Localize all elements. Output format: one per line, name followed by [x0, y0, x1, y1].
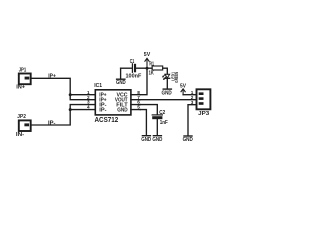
ground under IC1 pin 5 — [142, 135, 150, 137]
svg-text:GND: GND — [162, 90, 172, 96]
wire IN+ branch to IC1 pin 1 — [70, 94, 95, 96]
svg-text:IC1: IC1 — [94, 83, 102, 89]
svg-text:GND: GND — [116, 80, 126, 86]
ground under LED — [163, 88, 171, 90]
connector JP2 — [19, 120, 31, 131]
wire JP3 pin 3 down to ground — [188, 105, 197, 136]
pin numbers JP3 (1,2,3) — [191, 90, 194, 105]
svg-text:IP+: IP+ — [48, 74, 56, 80]
junction IN- — [69, 108, 72, 111]
wire FILT: IC1 pin 6 to C2 — [140, 105, 157, 115]
ground under C1 — [117, 78, 125, 80]
svg-text:GND: GND — [183, 137, 193, 143]
capacitor C2 — [152, 115, 162, 119]
wire 5V rail left segment to C1 — [121, 67, 132, 69]
wire VCC: IC1 pin 8 up to 5V rail — [140, 68, 147, 95]
svg-text:GND: GND — [141, 137, 151, 143]
wire R1 to LED — [163, 68, 168, 74]
svg-text:1nF: 1nF — [160, 120, 168, 126]
svg-text:IN+: IN+ — [16, 85, 25, 91]
supply 5V symbol (JP3) — [181, 89, 185, 95]
svg-text:R1: R1 — [149, 61, 154, 67]
wire VOUT: IC1 pin 7 to JP3 pin 2 — [140, 99, 196, 101]
ground under JP3 pin 3 — [184, 135, 192, 137]
wire LED cathode down to ground — [166, 78, 168, 88]
svg-text:IP-: IP- — [99, 108, 107, 114]
wire down from rail to ground (left of C1) — [120, 68, 122, 78]
wire IN- from JP2 to IC1 pin 3 — [31, 105, 96, 125]
svg-text:100nF: 100nF — [126, 73, 142, 79]
junction 5V rail — [146, 67, 149, 70]
pin numbers IC1 right (8,7,6,5) — [137, 90, 140, 110]
svg-text:GND: GND — [152, 137, 162, 143]
svg-text:IN-: IN- — [16, 132, 24, 138]
wire IN+ from JP1 to IC1 pin 2 — [31, 78, 96, 99]
junction IN+ — [69, 93, 72, 96]
ground under C2 — [153, 135, 161, 137]
wire 5V rail mid segment C1 to R1 — [136, 67, 152, 69]
svg-text:GREEN: GREEN — [174, 72, 179, 83]
resistor R1 — [152, 66, 163, 70]
pin names IC1 right (VCC VOUT FILT GND) — [115, 93, 128, 114]
svg-text:JP3: JP3 — [198, 111, 210, 117]
svg-text:C2: C2 — [159, 110, 165, 116]
svg-text:ACS712: ACS712 — [95, 117, 119, 124]
wire IN- branch to IC1 pin 4 — [70, 109, 95, 111]
svg-text:1K: 1K — [149, 70, 154, 76]
svg-text:JP2: JP2 — [17, 114, 26, 120]
IC1 right pin stubs 8-5 — [131, 95, 140, 110]
LED D1 — [162, 74, 170, 80]
svg-text:C1: C1 — [130, 59, 135, 65]
wire C2 down to ground — [156, 119, 158, 135]
svg-text:4: 4 — [87, 105, 90, 110]
svg-text:GND: GND — [117, 108, 128, 114]
wire GND: IC1 pin 5 down to ground — [140, 110, 146, 135]
capacitor C1 — [132, 64, 136, 73]
svg-text:5V: 5V — [180, 83, 186, 89]
IC IC1 ACS712 body — [95, 90, 131, 115]
wire 5V to JP3 pin 1 — [183, 94, 196, 96]
svg-text:JP1: JP1 — [19, 68, 27, 74]
svg-text:IP-: IP- — [48, 120, 56, 126]
svg-text:5V: 5V — [144, 52, 151, 58]
connector JP1 — [19, 74, 31, 85]
supply 5V symbol (rail) — [145, 58, 149, 68]
connector JP3 — [197, 89, 211, 109]
pin names IC1 left (IP+ IP+ IP- IP-) — [99, 93, 107, 114]
pin numbers IC1 left (1,2,3,4) — [87, 90, 90, 110]
